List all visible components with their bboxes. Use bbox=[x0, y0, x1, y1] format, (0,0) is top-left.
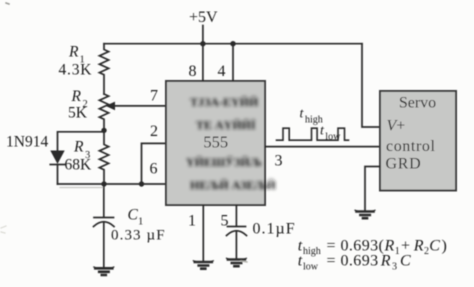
svg-text:2: 2 bbox=[424, 246, 429, 257]
svg-text:1: 1 bbox=[188, 213, 196, 230]
resistor R3 bbox=[99, 130, 108, 184]
label control terminal bbox=[386, 138, 436, 155]
label R3 bbox=[73, 139, 90, 162]
svg-text:4: 4 bbox=[218, 63, 226, 80]
wire pin 5 lead bbox=[235, 205, 237, 226]
svg-text:V+: V+ bbox=[387, 117, 406, 134]
svg-text:R: R bbox=[380, 253, 391, 270]
label 555 bbox=[203, 133, 228, 152]
svg-text:Servo: Servo bbox=[399, 95, 436, 112]
svg-text:low: low bbox=[325, 131, 341, 142]
wire trigger/threshold bus bbox=[58, 183, 167, 185]
svg-text:8: 8 bbox=[189, 63, 197, 80]
svg-text:ТЕ АҮЙЙЇ: ТЕ АҮЙЙЇ bbox=[196, 118, 256, 132]
scan smudge left of equations bbox=[241, 261, 247, 262]
wire +5V lead bbox=[202, 26, 204, 44]
svg-text:0.33 µF: 0.33 µF bbox=[111, 228, 166, 244]
svg-text:R: R bbox=[71, 88, 82, 105]
svg-text:high: high bbox=[303, 246, 321, 257]
label R1 value 4.3K bbox=[59, 62, 93, 79]
pin number 5 bbox=[221, 213, 229, 230]
ghost line scan artifact bbox=[60, 187, 103, 189]
wire pin 3 output bbox=[265, 146, 380, 148]
equation t low bbox=[298, 253, 411, 273]
label t low bbox=[320, 123, 341, 142]
svg-text:0.1µF: 0.1µF bbox=[253, 221, 296, 238]
svg-text:+5V: +5V bbox=[189, 9, 218, 26]
svg-text:ТЈЗА-ЕҮЙЙ: ТЈЗА-ЕҮЙЙ bbox=[190, 95, 259, 109]
svg-text:6: 6 bbox=[150, 161, 158, 178]
wire servo GRD lead bbox=[365, 167, 380, 211]
pin number 2 bbox=[150, 123, 158, 140]
label R1 bbox=[68, 44, 85, 66]
label Servo bbox=[399, 95, 436, 112]
scan smudge mid-left bbox=[1, 226, 6, 233]
ground under C1 bbox=[94, 267, 114, 275]
bleed-through ghost text bbox=[186, 95, 276, 192]
pin number 3 bbox=[275, 153, 283, 170]
wiper arrowhead bbox=[106, 102, 116, 111]
svg-text:0.693: 0.693 bbox=[341, 253, 379, 270]
wire servo V+ lead bbox=[362, 44, 380, 127]
wire pin 2 branch bbox=[142, 143, 167, 184]
svg-text:=: = bbox=[327, 253, 336, 270]
diode D1 1N914 bbox=[50, 151, 64, 165]
label C1 bbox=[128, 207, 144, 228]
wire diode branch top bbox=[58, 132, 105, 151]
svg-text:4.3K: 4.3K bbox=[59, 62, 93, 79]
pin number 7 bbox=[150, 88, 158, 105]
output pulse waveform bbox=[277, 128, 349, 140]
svg-text:GRD: GRD bbox=[386, 156, 422, 173]
ground under pin 1 bbox=[193, 261, 213, 269]
potentiometer R2 bbox=[99, 94, 108, 130]
svg-text:control: control bbox=[386, 138, 436, 155]
label 1N914 bbox=[6, 134, 48, 151]
svg-text:3: 3 bbox=[275, 153, 283, 170]
svg-text:): ) bbox=[442, 237, 447, 254]
junction pin2/pin6 bbox=[139, 181, 144, 186]
svg-text:low: low bbox=[303, 261, 319, 272]
scan smudge top-left bbox=[6, 3, 9, 4]
label V+ terminal bbox=[387, 117, 406, 134]
wire +5V rail bbox=[104, 43, 362, 45]
equation t high bbox=[298, 237, 447, 257]
svg-text:НЕЉЙ АЗЕЉЙ: НЕЉЙ АЗЕЉЙ bbox=[190, 178, 276, 192]
ground servo bbox=[355, 210, 375, 218]
wire pin 1 lead bbox=[202, 205, 204, 261]
pin number 6 bbox=[150, 161, 158, 178]
ground under pin 5 bbox=[226, 258, 246, 266]
pin number 8 bbox=[189, 63, 197, 80]
label C2 value 0.1uF bbox=[253, 221, 296, 238]
junction R2/R3/diode bbox=[101, 128, 106, 133]
svg-text:2: 2 bbox=[150, 123, 158, 140]
svg-text:3: 3 bbox=[392, 261, 397, 272]
junction R3/C1 bbox=[101, 181, 106, 186]
pin number 1 bbox=[188, 213, 196, 230]
svg-text:C: C bbox=[400, 253, 411, 270]
svg-text:5K: 5K bbox=[68, 104, 88, 121]
svg-text:1: 1 bbox=[138, 217, 143, 228]
resistor R1 bbox=[99, 44, 108, 94]
node +5V label bbox=[189, 9, 218, 26]
wire pin 7 to R2 wiper bbox=[114, 105, 167, 107]
wire pin 8 lead bbox=[202, 44, 204, 81]
junction rail/pin4 bbox=[230, 41, 235, 46]
svg-text:ҮЙЕШЎЗЙЉ: ҮЙЕШЎЗЙЉ bbox=[186, 155, 262, 169]
junction rail/pin8 bbox=[200, 41, 205, 46]
svg-text:R: R bbox=[413, 237, 424, 254]
svg-text:7: 7 bbox=[150, 88, 158, 105]
svg-text:C: C bbox=[128, 207, 139, 224]
svg-text:555: 555 bbox=[203, 133, 228, 152]
svg-text:R: R bbox=[68, 44, 79, 61]
label C1 value 0.33 uF bbox=[111, 228, 166, 244]
pin number 4 bbox=[218, 63, 226, 80]
svg-text:1N914: 1N914 bbox=[6, 134, 48, 151]
wire pin 4 lead bbox=[232, 44, 234, 81]
label R3 value 68K bbox=[65, 157, 93, 174]
label GRD terminal bbox=[386, 156, 422, 173]
capacitor C1 bbox=[103, 184, 105, 217]
label t high bbox=[300, 107, 323, 126]
label R2 bbox=[71, 88, 88, 110]
capacitor C2 0.1uF bbox=[228, 226, 246, 228]
label R2 value 5K bbox=[68, 104, 88, 121]
servo module body bbox=[380, 91, 456, 191]
IC U1 555 body bbox=[166, 81, 265, 205]
svg-text:R: R bbox=[73, 139, 84, 156]
svg-text:C: C bbox=[429, 237, 440, 254]
svg-text:68K: 68K bbox=[65, 157, 93, 174]
